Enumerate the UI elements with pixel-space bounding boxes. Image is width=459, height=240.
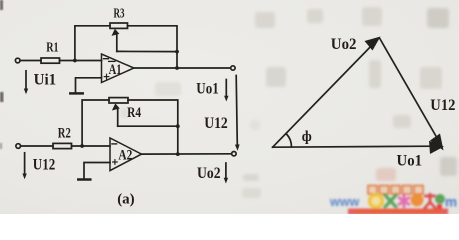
wire R3 right side down to output node: [128, 26, 178, 68]
potentiometer R4 wiper arrow: [112, 103, 120, 110]
ground symbol (A2): [78, 178, 90, 181]
junction node after R2: [80, 144, 84, 148]
edge smudges (decorative): [0, 0, 4, 149]
svg-text:A2: A2: [118, 147, 132, 163]
arrow Uo2 (output voltage): [225, 163, 227, 179]
junction wiper-feedback (A2): [176, 124, 180, 128]
svg-text:R2: R2: [58, 126, 71, 142]
junction node after R1: [73, 59, 77, 63]
potentiometer R3: [110, 23, 128, 28]
junction feedback-output (A2): [176, 152, 180, 156]
svg-text:R1: R1: [46, 40, 58, 55]
wire R4 wiper to feedback node: [118, 125, 178, 127]
input terminal (top, Ui1): [15, 58, 20, 63]
potentiometer R3 wiper arrow: [112, 29, 120, 36]
svg-text:Uo2: Uo2: [331, 36, 357, 53]
wire R4 right side down to output node: [128, 100, 178, 154]
svg-text:R4: R4: [127, 105, 141, 121]
wire R2 to A2 inverting input: [72, 145, 111, 147]
junction wiper-feedback: [175, 50, 179, 54]
output terminal Uo1: [231, 66, 235, 70]
svg-text:m: m: [445, 195, 457, 210]
arrow U12 (input voltage, bottom): [24, 153, 26, 175]
svg-text:A1: A1: [109, 62, 122, 78]
wire junction up to R4: [82, 100, 109, 146]
phasor Uo2 vector: [273, 40, 378, 148]
wire R1 to A1 inverting input: [60, 60, 102, 62]
arrow Uo1 (output voltage): [225, 80, 227, 98]
phasor U12 vector: [380, 38, 437, 137]
output terminal Uo2: [232, 152, 236, 156]
op-amp A2: [110, 138, 142, 171]
watermark: [329, 186, 457, 215]
ground symbol (A1): [70, 92, 82, 95]
arrow Ui1 (input voltage): [25, 71, 27, 90]
junction feedback-output (A1): [175, 66, 179, 70]
svg-text:Ui1: Ui1: [34, 71, 57, 88]
wire A2 non-inverting input: [84, 163, 110, 179]
svg-text:U12: U12: [204, 115, 228, 132]
wire A1 output: [134, 67, 231, 69]
wire junction up to R3: [75, 26, 110, 61]
svg-text:R3: R3: [114, 7, 125, 22]
wire input to R2: [21, 145, 54, 147]
angle arc phi: [287, 134, 292, 147]
svg-text:(a): (a): [117, 191, 135, 207]
svg-text:ф: ф: [302, 129, 312, 145]
wire R3 wiper to feedback node: [117, 50, 177, 52]
svg-text:www: www: [329, 195, 359, 209]
op-amp A1: [102, 54, 134, 83]
wire input to R1: [20, 60, 41, 62]
resistor R2: [53, 143, 72, 148]
svg-text:U12: U12: [33, 156, 55, 173]
svg-text:U12: U12: [430, 97, 455, 114]
phasor Uo1 vector: [273, 146, 433, 147]
wire A1 non-inverting input: [76, 78, 102, 93]
potentiometer R4: [109, 98, 128, 103]
input terminal (bottom, U12): [16, 144, 21, 149]
svg-text:Uo1: Uo1: [196, 80, 218, 97]
ghost bleed-through blobs (decorative): [120, 7, 457, 198]
resistor R1: [41, 58, 60, 63]
svg-text:Uo1: Uo1: [397, 152, 423, 169]
wire A2 output: [142, 153, 232, 155]
svg-text:Uo2: Uo2: [197, 165, 221, 182]
measurement arrow U12 between outputs: [236, 76, 237, 146]
